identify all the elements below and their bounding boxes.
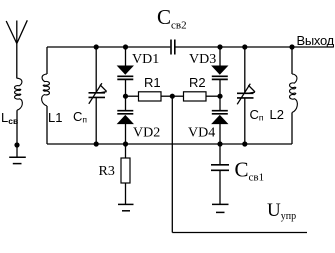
antenna [6,20,27,78]
svg-text:R1: R1 [144,75,161,90]
node top Cp-left [94,44,99,49]
svg-text:R2: R2 [189,75,206,90]
node Lsv-ground [14,142,19,147]
node top L2 [289,44,294,49]
wire Uupr control line [172,96,307,232]
svg-text:Выход: Выход [297,33,335,48]
wire top bus right [176,46,334,48]
varicap VD4 [212,96,228,144]
varicap VD2 [117,96,133,144]
node top VD3 [217,44,222,49]
resistor R1 [126,92,173,101]
node bottom VD4-Csv1 [217,141,222,146]
wire top bus [47,46,170,48]
resistor R3 [121,144,130,204]
wire bottom bus [47,143,292,145]
resistor R2 [172,92,220,101]
node bottom Cp-right [242,141,247,146]
varicap VD1 [117,47,133,96]
svg-text:VD2: VD2 [133,126,160,141]
ground [9,157,26,163]
svg-text:VD4: VD4 [188,126,215,141]
ground below R3 [118,204,134,210]
capacitor Csv1 [211,144,229,204]
node top VD1 [123,44,128,49]
node R1-R2 [170,94,175,99]
node bottom VD2-R3 [123,141,128,146]
ground below Csv1 [212,204,229,212]
node VD1-VD2-R1 [123,94,128,99]
inductor L1 [42,47,50,144]
inductor Lsv [15,78,23,110]
svg-text:VD1: VD1 [132,52,159,67]
varicap VD3 [212,47,228,96]
inductor L2 [290,47,298,144]
wire [16,110,18,157]
capacitor Csv2 [171,40,175,55]
node top Cp-right [242,44,247,49]
node R2-VD3 [217,94,222,99]
node bottom Cp-left [94,141,99,146]
svg-text:R3: R3 [99,164,115,179]
svg-text:L2: L2 [270,107,284,122]
svg-text:L1: L1 [48,110,62,125]
capacitor Cp left (variable) [89,47,107,144]
capacitor Cp right (variable) [237,47,255,144]
svg-text:VD3: VD3 [189,52,216,67]
